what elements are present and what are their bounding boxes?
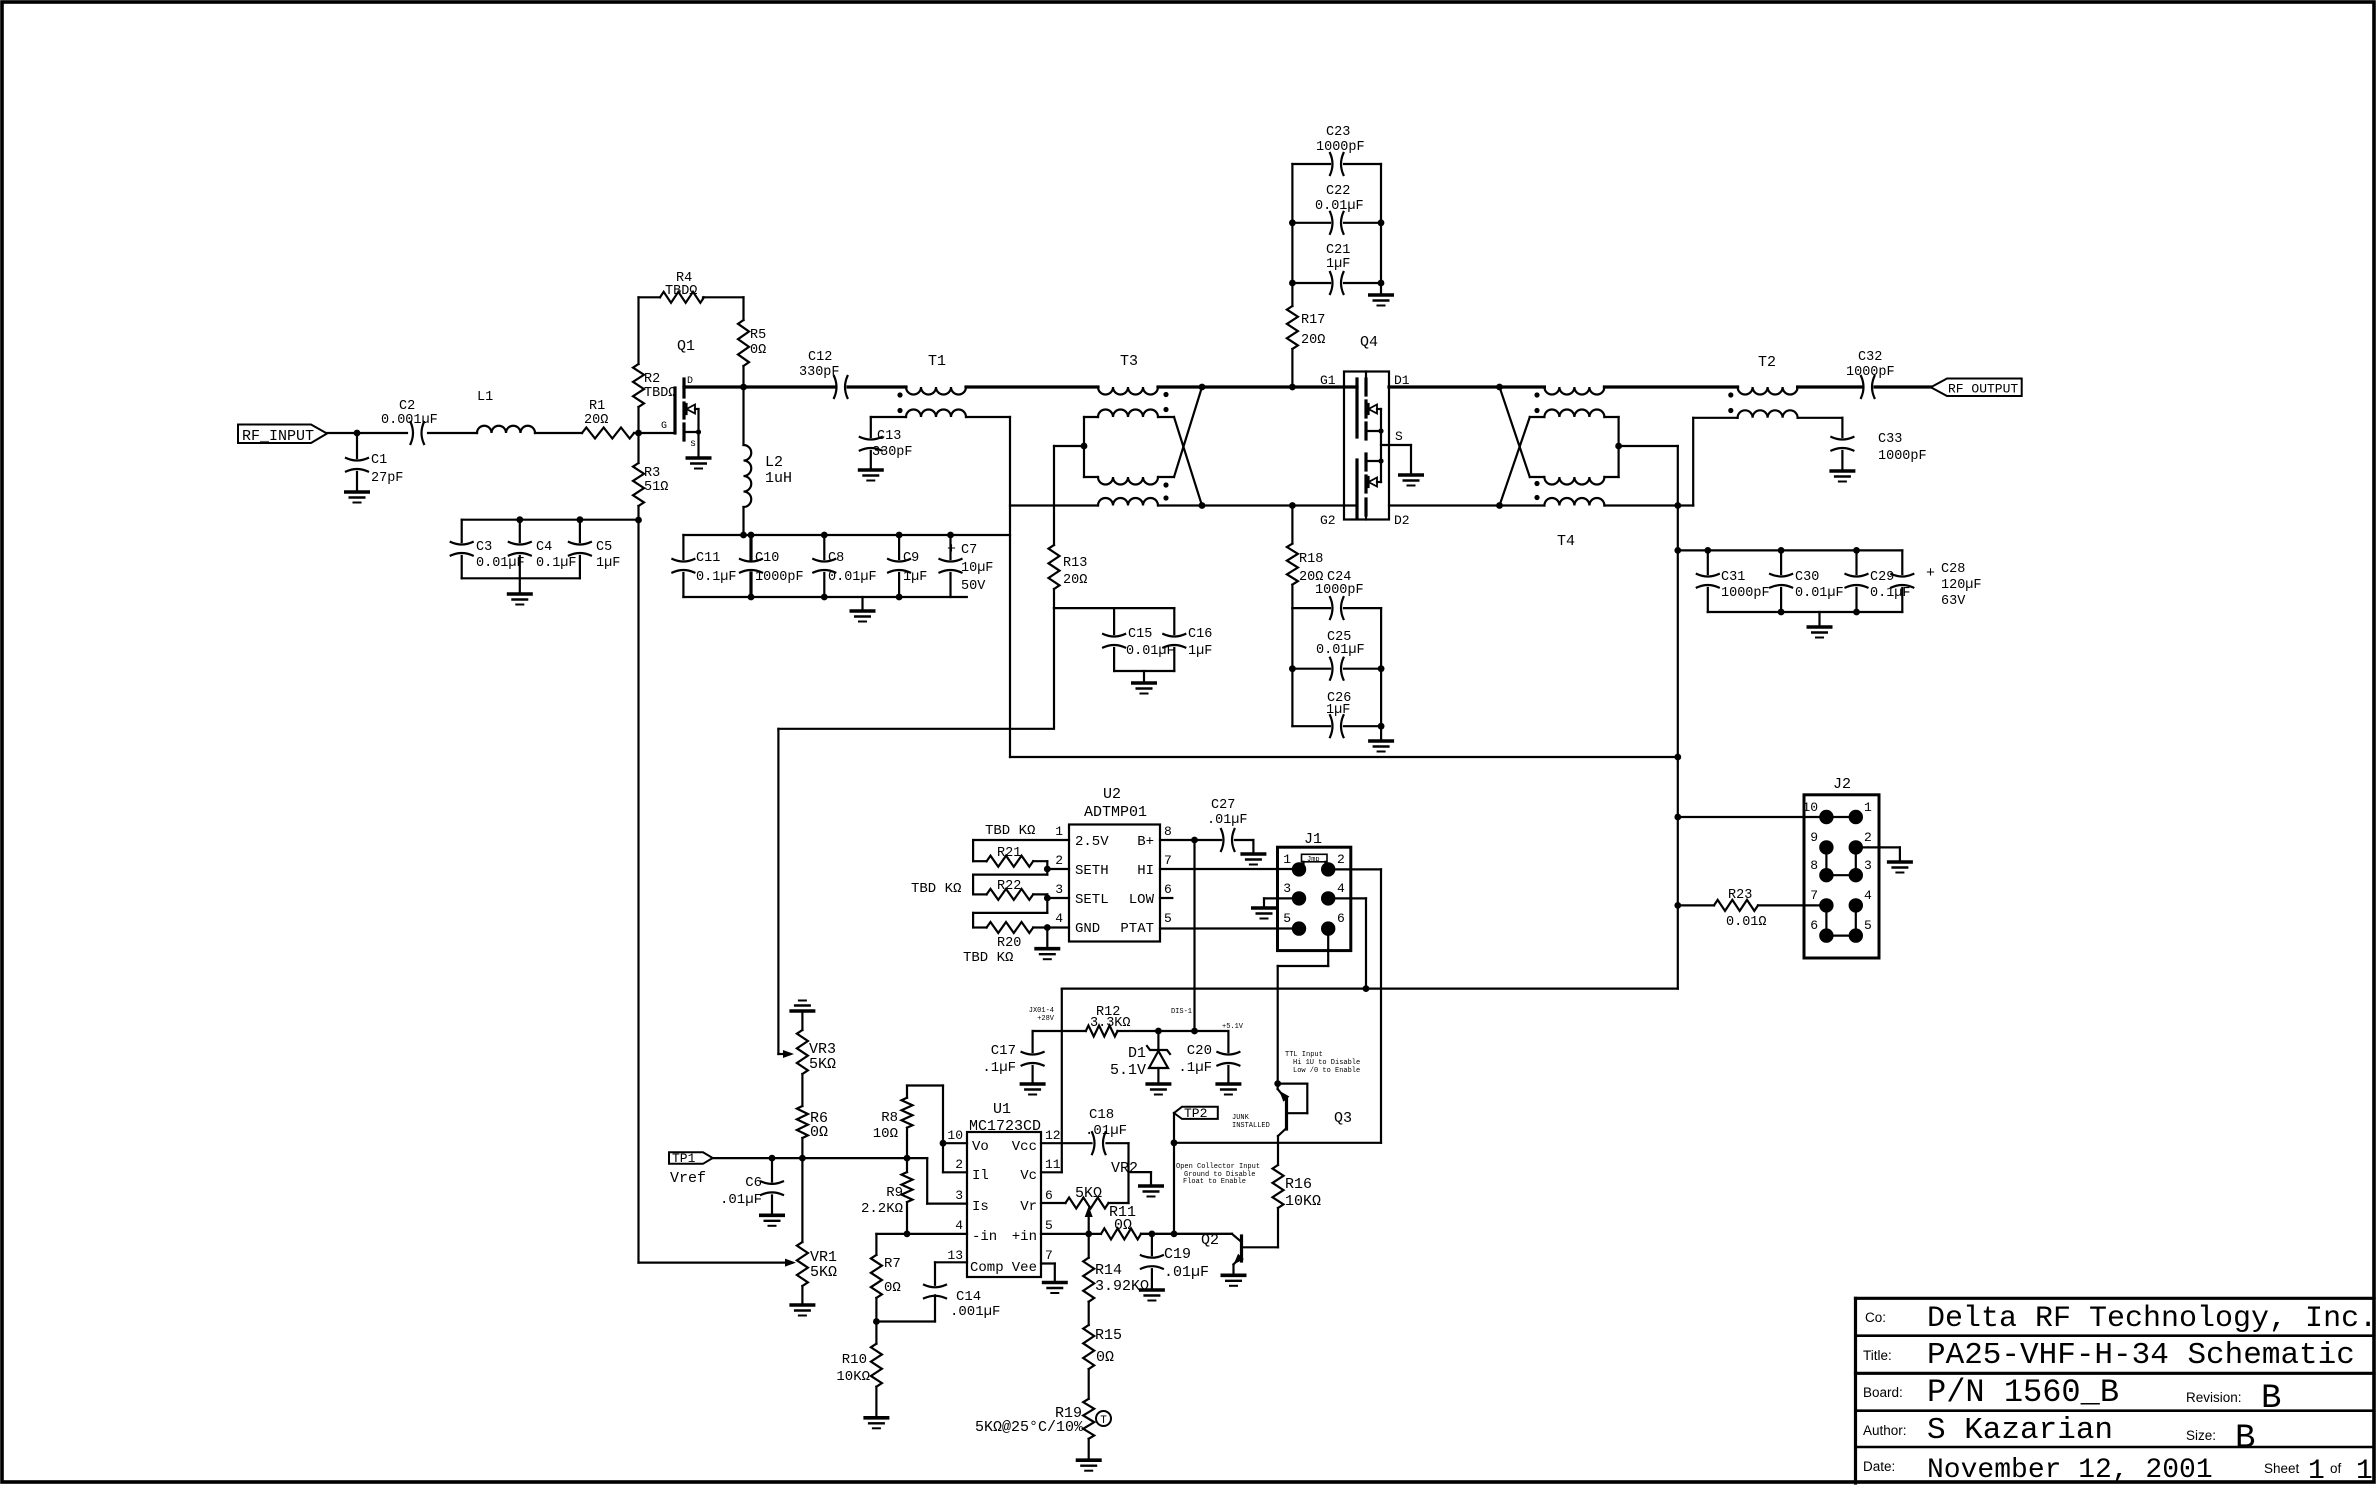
svg-text:Size:: Size:: [2186, 1428, 2216, 1443]
svg-text:1: 1: [1055, 824, 1063, 839]
capacitor C15: [1113, 608, 1115, 634]
capacitor C9: [898, 535, 900, 559]
svg-text:TBDΩ: TBDΩ: [665, 284, 697, 299]
wire TP2 drop: [1173, 1113, 1175, 1234]
wire J2 pin2-3: [1855, 847, 1857, 875]
svg-text:TBDΩ: TBDΩ: [644, 386, 676, 401]
IC U1 MC1723CD: [967, 1132, 1041, 1277]
svg-text:C20: C20: [1187, 1043, 1212, 1059]
ground VR3 top: [789, 1009, 815, 1013]
J1 pin 5: [1292, 921, 1306, 935]
svg-text:DIS-1: DIS-1: [1171, 1008, 1192, 1016]
svg-text:0.01µF: 0.01µF: [476, 556, 525, 571]
svg-text:MC1723CD: MC1723CD: [969, 1118, 1041, 1135]
resistor R1: [582, 428, 634, 439]
wire T4 crossing A: [1500, 387, 1530, 477]
potentiometer VR2: [1041, 1202, 1066, 1204]
svg-text:C23: C23: [1326, 125, 1350, 140]
svg-text:B: B: [2261, 1380, 2281, 1418]
wire C31 rail: [1678, 549, 1903, 551]
capacitor C31: [1707, 550, 1709, 574]
svg-text:Date:: Date:: [1863, 1459, 1895, 1474]
ground C24 stack: [1380, 726, 1382, 741]
net flag RF OUTPUT: [1931, 379, 2022, 397]
wire pin2 jog: [973, 873, 1047, 875]
svg-text:8: 8: [1810, 858, 1818, 873]
svg-text:T: T: [1100, 1415, 1107, 1427]
wire bottom line: [1010, 504, 1098, 506]
svg-text:-in: -in: [972, 1229, 997, 1245]
junction feed R23: [1674, 902, 1681, 909]
svg-text:.001µF: .001µF: [950, 1304, 1000, 1320]
svg-text:Q2: Q2: [1201, 1232, 1219, 1249]
svg-text:D1: D1: [1128, 1045, 1146, 1062]
svg-text:R13: R13: [1063, 556, 1087, 571]
capacitor C21: [1292, 282, 1330, 284]
svg-text:13: 13: [947, 1248, 963, 1263]
svg-text:0Ω: 0Ω: [810, 1124, 828, 1141]
J2 pin 8: [1819, 868, 1833, 882]
svg-text:C13: C13: [877, 429, 901, 444]
svg-text:U1: U1: [993, 1101, 1011, 1118]
junction R17 node: [1289, 384, 1296, 391]
svg-text:1: 1: [1283, 852, 1291, 867]
svg-text:0Ω: 0Ω: [750, 343, 766, 358]
svg-text:HI: HI: [1137, 863, 1154, 879]
svg-text:5KΩ@25°C/10%: 5KΩ@25°C/10%: [975, 1419, 1084, 1436]
transistor Q4 dual MOSFET: [1344, 372, 1389, 520]
svg-text:2: 2: [955, 1157, 963, 1172]
ground C3 group: [519, 578, 521, 594]
junction TP2 line: [1171, 1139, 1178, 1146]
IC U2 ADTMP01: [1069, 825, 1160, 942]
wire VR1 wiper: [639, 1261, 793, 1263]
wire C24 stack frame: [1291, 608, 1293, 726]
svg-text:20Ω: 20Ω: [1063, 573, 1087, 588]
capacitor C24: [1292, 607, 1330, 609]
wire J2 pin2 gnd: [1856, 846, 1900, 848]
junction C10 bottom: [748, 594, 755, 601]
svg-text:7: 7: [1045, 1248, 1053, 1263]
svg-text:1: 1: [2356, 1456, 2373, 1486]
svg-text:.01µF: .01µF: [1085, 1123, 1127, 1139]
junction stack j2: [1378, 219, 1385, 226]
junction C10 top: [748, 532, 755, 539]
transistor Q2: [1141, 1233, 1232, 1235]
svg-text:G1: G1: [1320, 373, 1336, 388]
title block frame: [1856, 1297, 2375, 1300]
junction C30 bottom: [1778, 609, 1785, 616]
junction vref chain: [799, 1155, 806, 1162]
capacitor C22: [1292, 222, 1330, 224]
svg-text:RF_INPUT: RF_INPUT: [242, 428, 314, 445]
wire J2 pin9-8: [1825, 847, 1827, 875]
svg-text:C8: C8: [828, 551, 844, 566]
svg-text:8: 8: [1164, 824, 1172, 839]
J2 pin 4: [1849, 898, 1863, 912]
connector J2: [1804, 795, 1879, 958]
svg-text:R18: R18: [1299, 552, 1323, 567]
capacitor C13: [871, 416, 906, 418]
svg-text:2: 2: [1055, 853, 1063, 868]
junction U2 pin3: [1044, 895, 1051, 902]
svg-text:ADTMP01: ADTMP01: [1084, 804, 1147, 821]
svg-text:1000pF: 1000pF: [1316, 140, 1365, 155]
svg-text:0.01µF: 0.01µF: [1316, 643, 1365, 658]
ground J2 pin2: [1887, 860, 1913, 864]
wire +28V to Vc: [1061, 989, 1063, 1173]
svg-text:S Kazarian: S Kazarian: [1927, 1413, 2113, 1448]
svg-text:T3: T3: [1120, 353, 1138, 370]
svg-text:Open Collector Input: Open Collector Input: [1176, 1163, 1260, 1171]
svg-text:Author:: Author:: [1863, 1423, 1907, 1438]
svg-text:C27: C27: [1211, 798, 1235, 813]
svg-text:TBD KΩ: TBD KΩ: [963, 950, 1013, 966]
J2 pin 6: [1819, 928, 1833, 942]
svg-text:Vee: Vee: [1012, 1260, 1037, 1276]
resistor R13: [1053, 446, 1055, 545]
svg-text:R3: R3: [644, 466, 660, 481]
svg-text:B: B: [2235, 1420, 2255, 1458]
wire Vref line: [713, 1157, 928, 1159]
svg-text:5KΩ: 5KΩ: [809, 1056, 836, 1073]
wire J2 pin6-5: [1826, 934, 1855, 936]
net flag TP1: [669, 1152, 713, 1164]
net flag RF_INPUT: [238, 425, 327, 444]
svg-text:Vref: Vref: [670, 1170, 706, 1187]
wire R8 to pin10: [907, 1084, 943, 1086]
capacitor C11: [672, 559, 694, 562]
capacitor C1: [356, 433, 358, 458]
junction T4 tap: [1615, 443, 1622, 450]
resistor R9: [902, 1172, 913, 1202]
wire T3 tap stub: [1054, 445, 1084, 447]
svg-text:+28V: +28V: [1037, 1015, 1055, 1023]
wire D2 line: [1389, 504, 1500, 506]
svg-text:11: 11: [1045, 1157, 1061, 1172]
svg-text:.1µF: .1µF: [982, 1060, 1016, 1076]
svg-text:.01µF: .01µF: [1164, 1264, 1209, 1281]
J1 pin 6: [1321, 921, 1335, 935]
junction C6 tap: [769, 1155, 776, 1162]
svg-text:.01µF: .01µF: [1207, 813, 1248, 828]
capacitor C3: [451, 542, 473, 545]
wire VR3-R6: [801, 1074, 803, 1106]
svg-text:R5: R5: [750, 328, 766, 343]
resistor R17: [1291, 283, 1293, 306]
svg-text:120µF: 120µF: [1941, 578, 1982, 593]
junction T3 box tap: [1081, 443, 1088, 450]
junction C31 top: [1704, 547, 1711, 554]
resistor R14: [1083, 1258, 1094, 1302]
svg-text:2.5V: 2.5V: [1075, 834, 1109, 850]
svg-text:JUNK: JUNK: [1232, 1114, 1250, 1122]
capacitor C6: [771, 1158, 773, 1181]
svg-text:4: 4: [1864, 888, 1872, 903]
svg-text:3: 3: [1864, 858, 1872, 873]
J2 pin 3: [1849, 868, 1863, 882]
J2 pin 1: [1849, 810, 1863, 824]
svg-text:SETH: SETH: [1075, 863, 1109, 879]
svg-text:330pF: 330pF: [872, 445, 913, 460]
ground Q2: [1221, 1274, 1247, 1278]
svg-text:4: 4: [955, 1218, 963, 1233]
wire C21 stack frame: [1291, 164, 1293, 283]
wire U2 pin1 line: [973, 839, 1069, 841]
transistor Q3: [1277, 1084, 1279, 1089]
svg-text:U2: U2: [1103, 786, 1121, 803]
svg-text:1µF: 1µF: [1188, 644, 1212, 659]
wire Vee gnd: [1041, 1262, 1055, 1264]
junction T3 top: [1199, 384, 1206, 391]
svg-text:Q4: Q4: [1360, 334, 1378, 351]
ground C13: [858, 468, 884, 472]
wire C27 gnd: [1252, 840, 1254, 854]
svg-text:0.1µF: 0.1µF: [696, 570, 737, 585]
svg-text:INSTALLED: INSTALLED: [1232, 1122, 1270, 1130]
svg-text:1000pF: 1000pF: [755, 570, 804, 585]
wire J1 pin3 gnd: [1264, 897, 1299, 899]
svg-text:1uH: 1uH: [765, 470, 792, 487]
svg-text:Vc: Vc: [1020, 1168, 1037, 1184]
svg-text:1: 1: [1864, 800, 1872, 815]
wire HI line: [1160, 868, 1299, 870]
svg-text:R9: R9: [886, 1185, 903, 1201]
junction C31 rail left: [1674, 547, 1681, 554]
svg-text:10KΩ: 10KΩ: [836, 1369, 870, 1385]
svg-text:C12: C12: [808, 350, 832, 365]
svg-text:4: 4: [1055, 911, 1063, 926]
wire left bias vertical: [637, 520, 639, 1263]
svg-text:C21: C21: [1326, 243, 1350, 258]
wire +28V line: [1062, 987, 1678, 989]
svg-text:Sheet: Sheet: [2264, 1461, 2300, 1476]
svg-text:10Ω: 10Ω: [873, 1126, 898, 1142]
ground C17: [1020, 1082, 1046, 1086]
svg-text:Q3: Q3: [1334, 1110, 1352, 1127]
capacitor C2: [411, 422, 414, 444]
wire R2/R3 vertical: [637, 297, 639, 364]
transistor Q1: [673, 388, 676, 433]
junction drain node: [740, 384, 747, 391]
svg-text:C5: C5: [596, 540, 612, 555]
svg-text:10: 10: [1802, 800, 1818, 815]
capacitor C10: [749, 535, 752, 559]
wire J1 pin6 route: [1327, 929, 1329, 966]
svg-text:C10: C10: [755, 551, 779, 566]
resistor R10: [875, 1322, 877, 1344]
svg-text:B+: B+: [1137, 834, 1154, 850]
junction feed y757: [1674, 754, 1681, 761]
junction stack j3: [1289, 280, 1296, 287]
svg-text:.01µF: .01µF: [720, 1192, 762, 1208]
junction L2 to rail: [740, 532, 747, 539]
svg-text:5KΩ: 5KΩ: [1075, 1185, 1102, 1202]
ground C1: [344, 490, 370, 494]
junction C30 top: [1778, 547, 1785, 554]
junction bias/C3 rail: [635, 517, 642, 524]
svg-text:C7: C7: [961, 543, 977, 558]
svg-text:C9: C9: [903, 551, 919, 566]
svg-text:T1: T1: [928, 353, 946, 370]
svg-text:.1µF: .1µF: [1178, 1060, 1212, 1076]
junction R8 vref: [904, 1155, 911, 1162]
svg-text:C32: C32: [1858, 350, 1882, 365]
transformer T1: [906, 387, 966, 395]
svg-text:J2: J2: [1833, 776, 1851, 793]
potentiometer VR3: [797, 1030, 808, 1074]
net flag TP2: [1174, 1107, 1218, 1119]
capacitor C17: [1031, 1031, 1033, 1052]
junction C7 top: [947, 532, 954, 539]
capacitor C33: [1798, 417, 1843, 419]
J1 pin 4: [1321, 891, 1335, 905]
junction T4 bottom: [1496, 502, 1503, 509]
svg-text:20Ω: 20Ω: [584, 413, 608, 428]
junction U2 pin4: [1044, 924, 1051, 931]
wire G1 line: [1202, 385, 1357, 388]
svg-text:G2: G2: [1320, 513, 1336, 528]
svg-text:GND: GND: [1075, 921, 1100, 937]
resistor R19 thermistor: [1083, 1399, 1094, 1439]
resistor R21: [987, 856, 1034, 867]
junction C29 top: [1853, 547, 1860, 554]
resistor R6: [797, 1106, 808, 1138]
junction feed J2: [1674, 814, 1681, 821]
diode D1 zener: [1157, 1031, 1159, 1050]
capacitor C5: [579, 520, 581, 542]
svg-text:51Ω: 51Ω: [644, 480, 668, 495]
svg-text:J1: J1: [1304, 831, 1322, 848]
svg-text:Comp: Comp: [970, 1260, 1004, 1276]
wire J2 pin4-5: [1855, 905, 1857, 935]
ground C6: [759, 1214, 785, 1218]
wire B+ drop: [1193, 840, 1195, 1031]
svg-text:R2: R2: [644, 372, 660, 387]
junction feed bottom line: [1674, 502, 1681, 509]
svg-text:50V: 50V: [961, 579, 986, 594]
capacitor C30: [1780, 550, 1782, 574]
svg-text:5: 5: [1864, 918, 1872, 933]
svg-text:3: 3: [1283, 881, 1291, 896]
svg-text:R1: R1: [589, 399, 605, 414]
resistor R7: [875, 1234, 877, 1255]
svg-text:D2: D2: [1394, 513, 1410, 528]
wire main out line: [1604, 385, 1737, 388]
capacitor C25: [1292, 668, 1330, 670]
junction R9 -in: [904, 1231, 911, 1238]
svg-text:of: of: [2330, 1461, 2342, 1476]
svg-text:C14: C14: [956, 1289, 981, 1305]
wire J2 pin7-6: [1825, 905, 1827, 935]
junction stack j1: [1289, 219, 1296, 226]
capacitor C14: [876, 1320, 935, 1322]
J2 pin 2: [1849, 840, 1863, 854]
svg-text:12: 12: [1045, 1128, 1061, 1143]
svg-text:330pF: 330pF: [799, 365, 840, 380]
junction R7 bottom: [873, 1318, 880, 1325]
capacitor C12: [744, 385, 835, 388]
svg-text:0.001µF: 0.001µF: [381, 413, 438, 428]
svg-text:C19: C19: [1164, 1246, 1191, 1263]
wire J1 pin2 drop: [1328, 868, 1381, 870]
capacitor C7 electrolytic: [949, 535, 951, 559]
wire J2 pin8-3: [1826, 874, 1855, 876]
svg-text:5: 5: [1283, 911, 1291, 926]
junction T4 top: [1496, 384, 1503, 391]
svg-text:Q1: Q1: [677, 338, 695, 355]
svg-text:5KΩ: 5KΩ: [810, 1264, 837, 1281]
J2 pin 5: [1849, 928, 1863, 942]
junction gate node: [635, 430, 642, 437]
ground C19: [1139, 1288, 1165, 1292]
junction B+ tap: [1191, 1028, 1198, 1035]
svg-text:+: +: [947, 541, 956, 558]
svg-text:9: 9: [1810, 830, 1818, 845]
wire R22 to pin3: [1046, 894, 1048, 913]
ground D1: [1145, 1082, 1171, 1086]
junction J1 pin4 drop: [1363, 985, 1370, 992]
junction U2 pin2: [1044, 866, 1051, 873]
junction C1 tap: [354, 430, 361, 437]
resistor R22: [987, 889, 1034, 900]
capacitor C29: [1855, 550, 1857, 574]
svg-text:P/N 1560_B: P/N 1560_B: [1927, 1374, 2119, 1411]
ground C31 group: [1818, 612, 1820, 627]
svg-text:0.1µF: 0.1µF: [536, 556, 577, 571]
svg-text:6: 6: [1337, 911, 1345, 926]
svg-text:C3: C3: [476, 540, 492, 555]
capacitor C18: [1092, 1132, 1095, 1154]
svg-text:TP2: TP2: [1184, 1106, 1207, 1121]
junction C9 bottom: [896, 594, 903, 601]
wire C11 box top rail: [683, 534, 1010, 536]
svg-text:3.3KΩ: 3.3KΩ: [1090, 1016, 1131, 1031]
ground C20: [1215, 1082, 1241, 1086]
wire DC feed vertical: [1677, 446, 1679, 989]
wire T4 tap to feed: [1619, 445, 1678, 447]
svg-text:R20: R20: [997, 936, 1021, 951]
svg-text:R15: R15: [1095, 1327, 1122, 1344]
wire R12 rail: [1033, 1030, 1086, 1032]
junction B+ node: [1191, 837, 1198, 844]
junction C4 top: [516, 516, 523, 523]
resistor R2: [633, 364, 644, 407]
svg-text:3.92KΩ: 3.92KΩ: [1095, 1278, 1149, 1295]
junction stack j4: [1378, 280, 1385, 287]
resistor R16: [1273, 1165, 1284, 1208]
J2 pin 9: [1819, 840, 1833, 854]
J1 pin 3: [1292, 891, 1306, 905]
svg-text:5.1V: 5.1V: [1110, 1062, 1146, 1079]
wire VR2 gnd tap: [1129, 1171, 1152, 1173]
svg-text:3: 3: [1055, 882, 1063, 897]
junction VR2 wiper +in: [1085, 1231, 1092, 1238]
svg-text:R8: R8: [881, 1110, 898, 1126]
junction C5 top: [577, 516, 584, 523]
capacitor C16: [1173, 608, 1175, 634]
svg-text:5: 5: [1045, 1218, 1053, 1233]
svg-text:TP1: TP1: [672, 1151, 696, 1166]
capacitor C20: [1227, 1031, 1229, 1052]
junction stack2 j2: [1378, 665, 1385, 672]
transformer T2: [1738, 387, 1798, 395]
svg-text:2: 2: [1337, 852, 1345, 867]
svg-text:D: D: [687, 376, 693, 387]
svg-text:0Ω: 0Ω: [1096, 1349, 1114, 1366]
wire T4 bottom to T2: [1604, 504, 1693, 506]
svg-text:Low /0 to Enable: Low /0 to Enable: [1293, 1067, 1360, 1075]
